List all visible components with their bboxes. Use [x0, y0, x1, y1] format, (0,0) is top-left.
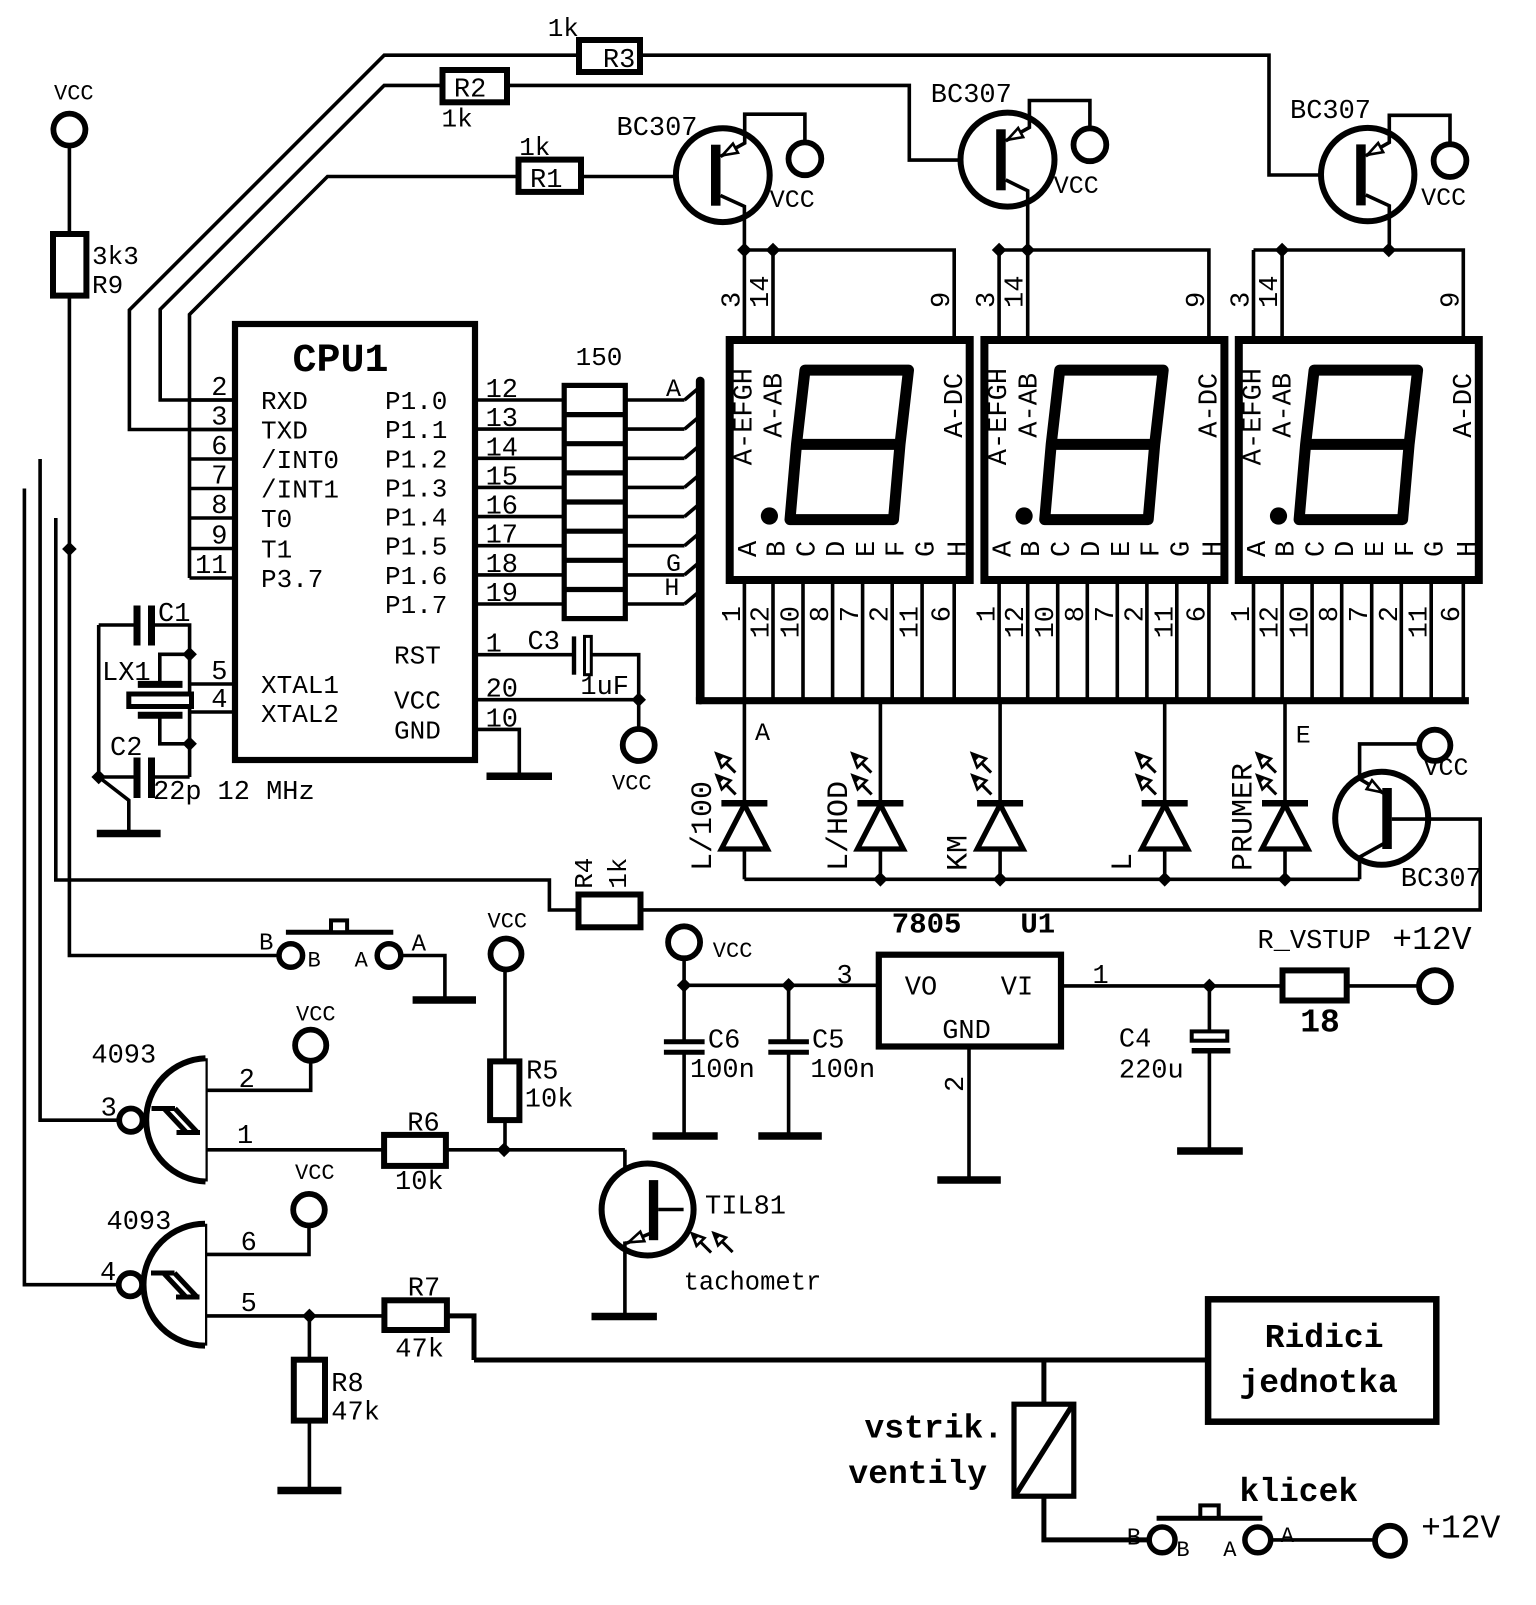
svg-text:6: 6 — [929, 606, 959, 622]
gate G2 hysteresis symbol — [151, 1271, 175, 1276]
svg-text:7: 7 — [211, 463, 227, 493]
svg-text:C: C — [1303, 541, 1333, 557]
transistor Q4 emitter to VCC — [1360, 744, 1419, 794]
svg-text:8: 8 — [1316, 606, 1346, 622]
svg-text:VCC: VCC — [1054, 172, 1099, 201]
wire G2 input pin5 to R7 — [205, 1314, 384, 1318]
svg-text:RXD: RXD — [261, 387, 308, 417]
svg-text:VCC: VCC — [1424, 754, 1469, 783]
transistor Q4 BC307 (mirrored) — [1335, 772, 1428, 865]
svg-text:R7: R7 — [408, 1275, 440, 1305]
svg-text:6: 6 — [1438, 606, 1468, 622]
wire R6 to TIL81 base node — [446, 1148, 625, 1152]
node C5 — [781, 978, 796, 993]
wire valve to key switch — [1044, 1496, 1149, 1540]
svg-text:F: F — [1392, 541, 1422, 557]
svg-text:VCC: VCC — [1421, 184, 1466, 213]
resistor network 150 (8x) — [564, 385, 625, 618]
svg-text:C: C — [1048, 541, 1078, 557]
capacitor C5 100n — [787, 985, 791, 1039]
wire RST pin1 to C3 — [475, 653, 572, 657]
capacitor C6 100n — [682, 985, 686, 1039]
svg-text:A: A — [1281, 1524, 1295, 1549]
switch klicek — [1157, 1516, 1263, 1521]
svg-text:4: 4 — [211, 686, 227, 716]
svg-text:3k3: 3k3 — [92, 242, 139, 272]
resistor R_VSTUP 18 — [1283, 970, 1347, 1000]
svg-text:18: 18 — [1300, 1004, 1340, 1041]
svg-text:A-DC: A-DC — [941, 373, 971, 438]
display DIS1 decimal point — [761, 507, 778, 524]
svg-text:220u: 220u — [1119, 1057, 1184, 1087]
svg-text:H: H — [1199, 541, 1229, 557]
display DIS1 seven-segment digit — [790, 370, 909, 519]
wire R2 to CPU pin2 RXD — [160, 85, 442, 400]
svg-text:G: G — [913, 541, 943, 557]
power terminal VCC (CPU) — [637, 700, 641, 729]
svg-text:BC307: BC307 — [1290, 97, 1371, 127]
wire node to TIL81 — [625, 1150, 649, 1189]
svg-text:19: 19 — [486, 580, 518, 610]
transistor Q4 base wire to R4 — [641, 819, 1481, 910]
svg-text:/INT0: /INT0 — [261, 446, 339, 476]
resistor R3 1k — [579, 40, 640, 72]
svg-text:tachometr: tachometr — [684, 1269, 822, 1298]
svg-text:R4: R4 — [570, 858, 600, 889]
svg-text:A-AB: A-AB — [1015, 373, 1045, 438]
svg-text:9: 9 — [1183, 292, 1213, 308]
wire G2 input pin6 to VCC — [205, 1226, 309, 1255]
wire C3 to VCC node — [591, 655, 638, 700]
svg-text:E: E — [1108, 541, 1138, 557]
LED L/HOD — [879, 704, 883, 802]
display DIS3 box — [1239, 340, 1479, 580]
transistor Q4 collector to LED rail — [1360, 844, 1384, 880]
wire R7 to control-unit line — [447, 1316, 474, 1360]
svg-text:11: 11 — [195, 552, 227, 582]
svg-text:XTAL2: XTAL2 — [261, 700, 339, 730]
svg-text:VCC: VCC — [770, 186, 815, 215]
svg-text:P1.6: P1.6 — [385, 562, 447, 592]
svg-text:A-AB: A-AB — [1270, 373, 1300, 438]
svg-text:VO: VO — [905, 973, 937, 1003]
svg-text:10: 10 — [1032, 606, 1062, 638]
svg-text:TIL81: TIL81 — [705, 1193, 786, 1223]
LED KM — [998, 704, 1002, 802]
svg-text:GND: GND — [394, 716, 441, 746]
transistor Q1 BC307 — [676, 128, 770, 222]
svg-text:3: 3 — [1228, 292, 1258, 308]
svg-text:6: 6 — [211, 433, 227, 463]
svg-text:BC307: BC307 — [931, 81, 1012, 111]
svg-text:RST: RST — [394, 642, 441, 672]
svg-text:R2: R2 — [454, 76, 486, 106]
svg-text:L/HOD: L/HOD — [823, 781, 857, 871]
svg-text:D: D — [823, 541, 853, 557]
svg-text:10: 10 — [778, 606, 808, 638]
svg-text:+12V: +12V — [1421, 1511, 1500, 1548]
capacitor C2 22p — [188, 744, 192, 777]
svg-text:3: 3 — [718, 292, 748, 308]
svg-text:1: 1 — [719, 606, 749, 622]
display DIS3 top pins 3,14,9 wire — [1252, 250, 1256, 340]
svg-text:8: 8 — [211, 492, 227, 522]
display DIS3 seven-segment digit — [1299, 370, 1418, 519]
node C4 — [1202, 979, 1217, 994]
svg-text:1k: 1k — [442, 105, 473, 135]
svg-text:100n: 100n — [810, 1056, 875, 1086]
svg-text:14: 14 — [747, 276, 777, 308]
svg-text:1: 1 — [974, 606, 1004, 622]
wire 7805 VI pin1 — [1061, 984, 1283, 988]
wire G1 input pin2 to VCC — [206, 1061, 311, 1090]
resistor R1 1k — [519, 160, 582, 192]
svg-text:U1: U1 — [1020, 909, 1055, 942]
transistor Q3 BC307 — [1321, 128, 1414, 221]
svg-text:B: B — [764, 541, 794, 557]
svg-text:H: H — [1454, 541, 1484, 557]
display DIS2 decimal point — [1016, 507, 1033, 524]
transistor TIL81 phototransistor — [602, 1164, 694, 1256]
transistor Q3 collector to DIS3 — [1366, 195, 1390, 250]
svg-text:ventily: ventily — [848, 1456, 987, 1493]
display DIS3 decimal point — [1270, 507, 1287, 524]
wire crystal to XTAL2 node — [160, 718, 190, 744]
svg-text:Ridici: Ridici — [1265, 1320, 1384, 1357]
power terminal VCC (7805 VO) — [668, 926, 700, 958]
resistor R6 10k — [384, 1135, 446, 1166]
svg-text:A: A — [1244, 540, 1274, 557]
svg-text:6: 6 — [241, 1229, 257, 1259]
svg-text:1k: 1k — [519, 133, 550, 163]
valve vstrik. ventily — [1014, 1404, 1074, 1496]
wire VCC pin20 — [475, 698, 639, 702]
svg-text:13: 13 — [486, 405, 518, 435]
wire button B to CPU pin9 T1 — [69, 549, 279, 956]
svg-text:R5: R5 — [526, 1058, 558, 1088]
svg-text:VCC: VCC — [295, 1161, 335, 1186]
svg-text:A-EFGH: A-EFGH — [985, 368, 1015, 465]
gate G1 hysteresis symbol — [152, 1106, 176, 1111]
svg-text:+12V: +12V — [1392, 922, 1471, 959]
wire G2 output pin4 to /INT1 — [24, 489, 118, 1285]
svg-text:H: H — [664, 574, 679, 603]
nand gate G2 4093 — [203, 1224, 208, 1346]
display DIS1 box — [730, 340, 970, 580]
svg-text:C4: C4 — [1119, 1026, 1151, 1056]
svg-text:A: A — [735, 540, 765, 557]
svg-text:A-AB: A-AB — [761, 373, 791, 438]
svg-text:L: L — [1107, 853, 1141, 871]
svg-text:E: E — [853, 541, 883, 557]
svg-text:2: 2 — [942, 1076, 972, 1092]
svg-text:C6: C6 — [708, 1027, 740, 1057]
svg-text:D: D — [1078, 541, 1108, 557]
svg-text:C3: C3 — [528, 628, 560, 658]
svg-text:E: E — [1296, 722, 1311, 751]
wire C1-C2 left rail — [97, 625, 101, 777]
svg-text:4093: 4093 — [107, 1208, 172, 1238]
svg-text:XTAL1: XTAL1 — [261, 671, 339, 701]
svg-text:/INT1: /INT1 — [261, 476, 339, 506]
transistor TIL81 emitter to ground — [625, 1234, 650, 1244]
svg-text:2: 2 — [211, 374, 227, 404]
block Ridici jednotka — [1208, 1299, 1436, 1421]
svg-text:1: 1 — [1093, 962, 1109, 992]
voltage regulator U1 7805 box — [879, 955, 1061, 1047]
wire R1 to CPU pin6 /INT0 (pin stack edge) — [190, 177, 519, 579]
display DIS2 junctions — [992, 243, 1007, 258]
svg-text:3: 3 — [973, 292, 1003, 308]
svg-text:C: C — [794, 541, 824, 557]
svg-text:A: A — [755, 719, 770, 748]
display DIS1 bottom pins to bus — [743, 580, 747, 700]
display DIS1 top pins 3,14,9 wire — [743, 250, 747, 340]
wire R4 to CPU pin8 T0 — [56, 518, 579, 910]
svg-text:B: B — [308, 949, 321, 974]
display DIS2 top pins 3,14,9 wire — [997, 250, 1001, 340]
ground R8 — [308, 1421, 312, 1488]
svg-text:VCC: VCC — [54, 82, 94, 107]
TIL81 light input arrows — [700, 1242, 711, 1253]
svg-text:11: 11 — [1406, 606, 1436, 638]
transistor Q2 collector to DIS2 — [1006, 180, 1028, 250]
svg-text:22p: 22p — [153, 778, 202, 808]
node T1 — [62, 542, 77, 557]
svg-text:5: 5 — [211, 658, 227, 688]
svg-text:100n: 100n — [690, 1056, 755, 1086]
wires 150 to segment bus A-H — [625, 398, 684, 402]
power terminal VCC (R5) — [491, 939, 522, 970]
svg-text:8: 8 — [807, 606, 837, 622]
svg-text:A-EFGH: A-EFGH — [1239, 368, 1269, 465]
svg-text:BC307: BC307 — [1401, 865, 1482, 895]
bus horizontal display pin bus — [696, 697, 1469, 704]
svg-text:12: 12 — [1257, 606, 1287, 638]
LED L — [1163, 704, 1167, 802]
svg-text:14: 14 — [486, 434, 518, 464]
svg-text:T0: T0 — [261, 505, 292, 535]
wire 7805 VO pin3 to VCC — [684, 983, 879, 987]
transistor Q1 collector to DIS1 — [721, 196, 745, 251]
capacitor C1 22p — [99, 623, 134, 627]
svg-text:C2: C2 — [110, 734, 142, 764]
nand gate G1 4093 — [203, 1058, 208, 1181]
svg-text:R3: R3 — [603, 46, 635, 76]
svg-text:B: B — [1127, 1526, 1141, 1553]
svg-text:H: H — [945, 541, 975, 557]
svg-text:klicek: klicek — [1239, 1474, 1358, 1511]
svg-text:11: 11 — [897, 606, 927, 638]
svg-text:A: A — [990, 540, 1020, 557]
LED PRUMER — [1283, 704, 1287, 802]
svg-text:1: 1 — [237, 1122, 253, 1152]
wire R5 to node — [503, 1120, 507, 1150]
display DIS2 bottom pins to bus — [997, 580, 1001, 700]
node XTAL1 — [182, 647, 197, 662]
resistor R8 47k — [294, 1360, 325, 1421]
transistor Q2 BC307 — [961, 113, 1055, 207]
svg-text:F: F — [1137, 541, 1167, 557]
svg-text:TXD: TXD — [261, 417, 308, 447]
capacitor C4 220u — [1208, 986, 1212, 1032]
transistor Q2 emitter to VCC — [1006, 101, 1090, 141]
resistor R7 47k — [384, 1300, 447, 1330]
svg-text:47k: 47k — [331, 1399, 380, 1429]
capacitor C3 1uF — [572, 636, 576, 674]
node C6 — [677, 978, 692, 993]
CPU right pin stubs 12..19 — [475, 398, 564, 402]
svg-text:VCC: VCC — [394, 687, 441, 717]
svg-text:vstrik.: vstrik. — [865, 1411, 1004, 1448]
resistor R9 3k3 — [53, 234, 86, 296]
wire R9 to T1 node — [68, 296, 72, 549]
svg-text:2: 2 — [867, 606, 897, 622]
CPU xtal pin stubs 5,4 — [190, 682, 235, 686]
svg-text:1k: 1k — [604, 858, 634, 889]
wire to vstrik ventily — [1041, 1360, 1046, 1404]
svg-text:8: 8 — [1062, 606, 1092, 622]
svg-text:CPU1: CPU1 — [293, 339, 389, 384]
resistor R2 1k — [443, 70, 508, 102]
ground 7805 pin2 GND — [967, 1047, 971, 1178]
transistor Q3 emitter to VCC — [1366, 115, 1450, 156]
svg-text:VCC: VCC — [488, 910, 528, 935]
svg-text:1k: 1k — [548, 14, 579, 44]
wire klicek to +12V — [1271, 1538, 1375, 1542]
svg-text:3: 3 — [211, 404, 227, 434]
transistor Q1 emitter to VCC — [721, 114, 805, 156]
svg-text:12: 12 — [486, 376, 518, 406]
node XTAL2 — [182, 737, 197, 752]
wire G1 output pin3 to /INT0 — [40, 459, 119, 1120]
power terminal +12V (klicek) — [1375, 1526, 1405, 1556]
svg-text:15: 15 — [486, 463, 518, 493]
svg-text:P1.0: P1.0 — [385, 387, 447, 417]
display DIS2 seven-segment digit — [1045, 370, 1164, 519]
bus vertical segment bus — [696, 381, 705, 700]
svg-text:9: 9 — [211, 523, 227, 553]
svg-text:VI: VI — [1001, 973, 1033, 1003]
svg-text:2: 2 — [239, 1066, 255, 1096]
svg-text:A-EFGH: A-EFGH — [730, 368, 760, 465]
svg-text:T1: T1 — [261, 536, 292, 566]
svg-text:P1.2: P1.2 — [385, 445, 447, 475]
svg-text:11: 11 — [1151, 606, 1181, 638]
svg-text:3: 3 — [837, 962, 853, 992]
svg-text:P1.1: P1.1 — [385, 416, 447, 446]
svg-text:E: E — [1362, 541, 1392, 557]
switch tlacitko A/B — [286, 930, 393, 935]
svg-text:4: 4 — [100, 1259, 116, 1289]
display DIS1 junctions — [737, 243, 752, 258]
svg-text:R8: R8 — [331, 1370, 363, 1400]
svg-text:17: 17 — [486, 522, 518, 552]
svg-text:P1.4: P1.4 — [385, 504, 447, 534]
svg-text:18: 18 — [486, 551, 518, 581]
svg-text:KM: KM — [943, 835, 977, 871]
svg-text:PRUMER: PRUMER — [1228, 763, 1262, 871]
ground CPU pin10 — [475, 729, 519, 772]
wire R2 to Q2 base — [507, 85, 997, 160]
svg-text:16: 16 — [486, 493, 518, 523]
svg-text:R1: R1 — [530, 166, 562, 196]
wire R3 to CPU pin3 TXD — [129, 55, 579, 429]
wire node to R8 — [308, 1316, 312, 1360]
junction LED rail — [873, 872, 888, 887]
svg-text:G: G — [1167, 541, 1197, 557]
svg-text:9: 9 — [1437, 292, 1467, 308]
svg-text:A: A — [355, 949, 369, 974]
svg-text:5: 5 — [241, 1290, 257, 1320]
svg-text:A-DC: A-DC — [1196, 373, 1226, 438]
junction LED rail — [993, 872, 1008, 887]
svg-text:P1.3: P1.3 — [385, 474, 447, 504]
LED L/100 — [743, 704, 747, 802]
power terminal VCC (G1) — [295, 1030, 326, 1061]
svg-text:7: 7 — [837, 606, 867, 622]
svg-text:F: F — [883, 541, 913, 557]
power terminal +12V (input) — [1419, 970, 1451, 1002]
ground crystal — [99, 777, 129, 830]
svg-text:R9: R9 — [92, 271, 123, 301]
svg-text:3: 3 — [101, 1095, 117, 1125]
svg-text:1: 1 — [1228, 606, 1258, 622]
wire VCC to R9 — [68, 146, 72, 234]
svg-text:10: 10 — [1287, 606, 1317, 638]
power terminal VCC (R9) — [53, 114, 85, 146]
wire R_VSTUP to +12V — [1347, 984, 1419, 988]
wire G1 input pin1 to R6 — [206, 1148, 385, 1152]
svg-text:P1.7: P1.7 — [385, 591, 447, 621]
svg-text:R_VSTUP: R_VSTUP — [1258, 927, 1371, 957]
svg-text:P1.5: P1.5 — [385, 533, 447, 563]
wire R7 line to Ridici jednotka — [474, 1358, 1208, 1363]
svg-text:2: 2 — [1121, 606, 1151, 622]
svg-text:P3.7: P3.7 — [261, 565, 323, 595]
display DIS3 bottom pins to bus — [1252, 580, 1256, 700]
junction LED rail — [1278, 872, 1293, 887]
svg-text:VCC: VCC — [713, 939, 753, 964]
svg-text:GND: GND — [942, 1017, 991, 1047]
svg-text:B: B — [1273, 541, 1303, 557]
svg-text:LX1: LX1 — [102, 659, 151, 689]
node C2 ground — [91, 770, 106, 785]
svg-text:VCC: VCC — [296, 1002, 336, 1027]
svg-text:B: B — [259, 930, 273, 957]
svg-text:7: 7 — [1092, 606, 1122, 622]
svg-text:47k: 47k — [395, 1336, 444, 1366]
svg-text:12: 12 — [748, 606, 778, 638]
power terminal VCC (G2) — [293, 1194, 325, 1226]
svg-text:jednotka: jednotka — [1239, 1365, 1397, 1402]
crystal LX1 — [138, 681, 183, 688]
resistor R4 1k — [579, 895, 641, 928]
svg-text:C5: C5 — [812, 1027, 844, 1057]
svg-text:150: 150 — [576, 343, 623, 373]
svg-text:2: 2 — [1376, 606, 1406, 622]
svg-text:D: D — [1332, 541, 1362, 557]
wire C1 to XTAL1 node — [155, 625, 190, 654]
node pin20 VCC — [631, 692, 646, 707]
resistor R5 10k — [490, 1061, 519, 1120]
svg-text:R6: R6 — [407, 1110, 439, 1140]
svg-text:A: A — [1223, 1538, 1237, 1563]
display DIS2 box — [984, 340, 1224, 580]
svg-text:12 MHz: 12 MHz — [218, 778, 315, 808]
svg-text:G: G — [1422, 541, 1452, 557]
svg-text:14: 14 — [1256, 276, 1286, 308]
